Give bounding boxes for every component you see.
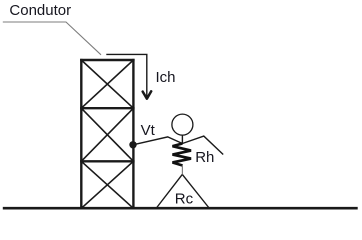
svg-text:Rh: Rh bbox=[195, 149, 214, 166]
svg-text:Condutor: Condutor bbox=[9, 2, 71, 19]
svg-text:Vt: Vt bbox=[141, 122, 156, 139]
svg-text:Rc: Rc bbox=[175, 190, 194, 207]
svg-text:Ich: Ich bbox=[156, 69, 176, 86]
